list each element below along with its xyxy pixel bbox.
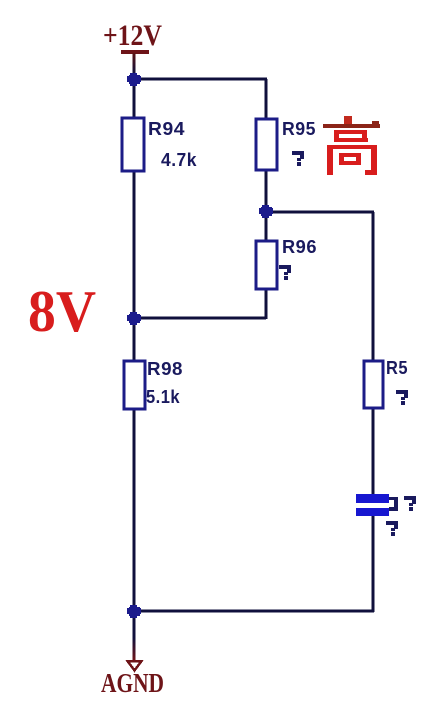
svg-text:R95: R95 — [282, 119, 316, 139]
svg-text:R96: R96 — [282, 237, 317, 257]
svg-text:R98: R98 — [147, 359, 183, 379]
svg-text:AGND: AGND — [101, 668, 164, 698]
svg-text:R94: R94 — [148, 119, 185, 139]
svg-text:8V: 8V — [28, 278, 96, 344]
svg-text:4.7k: 4.7k — [161, 150, 197, 170]
svg-text:+12V: +12V — [103, 19, 162, 52]
svg-text:5.1k: 5.1k — [146, 387, 180, 407]
svg-text:R5: R5 — [386, 358, 408, 378]
